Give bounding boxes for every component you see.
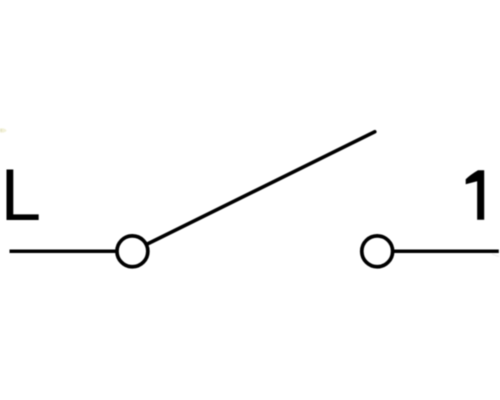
switch lever S1 <box>148 132 375 244</box>
wire left terminal <box>10 250 117 254</box>
artifact near right wire end <box>492 254 499 257</box>
node 1 label <box>466 170 485 220</box>
svg-text:L: L <box>1 155 42 236</box>
faint smudge artifact <box>0 128 7 132</box>
wire right terminal <box>393 250 499 254</box>
switch contact circle right <box>362 236 393 267</box>
switch contact circle left <box>117 236 148 267</box>
